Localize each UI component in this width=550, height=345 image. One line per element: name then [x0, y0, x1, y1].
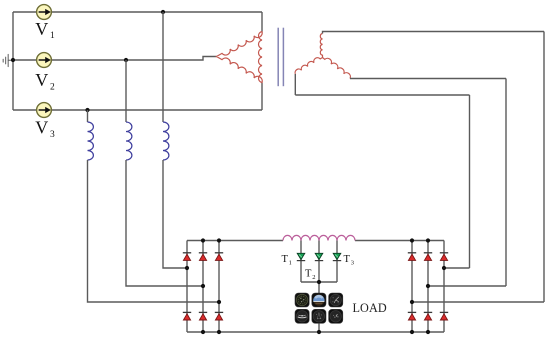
voltage source V1: [37, 5, 52, 20]
node: right bridge phase tap leg2: [426, 284, 430, 288]
diode D4 (left bridge bottom row): [183, 312, 191, 320]
diode D7 (right bridge top row): [408, 253, 416, 261]
diode D1 (left bridge top row): [183, 253, 191, 261]
node: junction V2 bus / inductor L2 tap: [124, 58, 128, 62]
wire: phase a to right rectifier leg 1: [412, 301, 544, 303]
diode D5 (left bridge bottom row): [199, 312, 207, 320]
svg-text:V: V: [35, 70, 48, 90]
wire: phase b vertical down: [505, 79, 507, 287]
node: junction top bus / inductor L3 tap: [161, 10, 165, 14]
wire: phase c vertical down: [469, 95, 471, 268]
svg-text:2: 2: [50, 83, 55, 93]
load instrument: heading indicator: [312, 309, 326, 323]
label T3: [344, 254, 354, 267]
wire: phase a right vertical down: [543, 32, 545, 303]
load instrument: vertical speed indicator: [329, 309, 343, 323]
svg-text:1: 1: [289, 260, 292, 267]
wire: phase c to right rectifier leg 3: [444, 267, 470, 269]
ground: [3, 55, 13, 67]
wire: L3 to left rectifier leg 1: [163, 160, 187, 268]
wire: tap T2 from coil down to load node: [318, 241, 320, 294]
node: junction V3 bus / inductor L1 tap: [85, 108, 89, 112]
transformer primary delta winding: [217, 32, 263, 83]
load instrument: airspeed indicator: [295, 293, 309, 307]
node: right bridge top bus leg1: [410, 238, 414, 242]
voltage source V2: [37, 53, 52, 68]
node: left bridge phase tap leg2: [201, 284, 205, 288]
wire: delta bottom vertex down to V3 bus: [261, 83, 263, 111]
wire: T1/T3 join bar: [301, 281, 337, 283]
wire: V3 phase bus along bottom: [13, 109, 262, 111]
wire: load bottom lead to negative bus: [318, 324, 320, 333]
node: left bridge bottom bus leg3: [217, 330, 221, 334]
wire: phase b to right rectifier leg 2: [428, 285, 506, 287]
wire: wye right branch to middle vertical (phase b): [350, 78, 506, 80]
diode D12 (right bridge bottom row): [440, 312, 448, 320]
wire: right bridge positive bus from interphase coil: [355, 240, 444, 242]
wire: left vertical rail joining V1 V2 V3: [12, 12, 14, 110]
diode D6 (left bridge bottom row): [215, 312, 223, 320]
label V2: [35, 70, 55, 93]
interphase transformer winding: [283, 235, 355, 240]
svg-text:2: 2: [312, 274, 315, 281]
wire: left bridge leg 3: [218, 241, 220, 333]
load instrument: attitude indicator: [312, 293, 326, 307]
node: left bridge top bus leg3: [217, 238, 221, 242]
load instrument: altimeter: [329, 293, 343, 307]
node: right bridge phase tap leg1: [410, 300, 414, 304]
node: right bridge bottom bus leg2: [426, 330, 430, 334]
diode D8 (right bridge top row): [424, 253, 432, 261]
svg-text:LOAD: LOAD: [353, 301, 387, 315]
node: right bridge top bus leg2: [426, 238, 430, 242]
svg-text:1: 1: [50, 31, 55, 41]
svg-text:3: 3: [50, 130, 55, 140]
thyristor T3: [333, 253, 341, 260]
diode D2 (left bridge top row): [199, 253, 207, 261]
svg-text:T: T: [305, 269, 312, 280]
wire: right bridge leg 3: [443, 241, 445, 333]
wire: right vertical drop from top bus to delta top vertex: [261, 12, 263, 32]
load instrument: turn coordinator: [295, 309, 309, 323]
transformer secondary wye winding: [295, 34, 350, 79]
wire: left bridge positive bus to interphase coil: [187, 240, 283, 242]
wire: tap T3 from coil down: [336, 241, 338, 283]
node: load / negative bus junction: [317, 330, 321, 334]
thyristor T2: [315, 253, 323, 260]
wire: tap T1 from coil down: [300, 241, 302, 283]
wire: left bridge leg 2: [202, 241, 204, 333]
label T1: [282, 254, 292, 267]
diode D11 (right bridge bottom row): [424, 312, 432, 320]
node: right bridge phase tap leg3: [442, 266, 446, 270]
wire: wye top branch to right vertical (phase a): [323, 32, 545, 34]
wire: L2 to left rectifier leg 2: [126, 160, 203, 286]
wire: drop from V2 bus to inductor L2: [125, 60, 127, 122]
wire: wye left branch down (phase c): [294, 74, 296, 95]
transformer core: [278, 28, 283, 86]
voltage source V3: [37, 103, 52, 118]
wire: L1 to left rectifier leg 3: [88, 160, 220, 302]
wire: negative bus (bottom) spanning both bridges: [187, 331, 444, 333]
wire: phase c horizontal: [295, 94, 469, 96]
svg-text:V: V: [35, 118, 48, 138]
diode D10 (right bridge bottom row): [408, 312, 416, 320]
svg-text:T: T: [282, 254, 289, 265]
thyristor T1: [297, 253, 305, 260]
node: junction left rail / V2 phase: [11, 58, 15, 62]
node: left bridge phase tap leg3: [217, 300, 221, 304]
node: left bridge bottom bus leg2: [201, 330, 205, 334]
inductor L1 (phase 3 line reactor): [88, 122, 94, 160]
node: thyristor common junction: [317, 280, 321, 284]
label V3: [35, 118, 55, 141]
label T2: [305, 269, 315, 282]
node: left bridge phase tap leg1: [185, 266, 189, 270]
diode D9 (right bridge top row): [440, 253, 448, 261]
svg-text:V: V: [35, 19, 48, 39]
wire: right bridge leg 1: [411, 241, 413, 333]
wire: drop from V3 bus to inductor L1: [87, 110, 89, 122]
wire: drop from top bus to inductor L3: [162, 12, 164, 122]
wire: right bridge leg 2: [427, 241, 429, 333]
wire: top phase bus from left rail to transformer (V1 phase): [13, 11, 262, 13]
wire: V2 phase to delta left vertex (with jog): [13, 57, 217, 61]
inductor L3 (phase 1 line reactor): [163, 122, 169, 160]
wire: left bridge leg 1: [186, 241, 188, 333]
diode D3 (left bridge top row): [215, 253, 223, 261]
label V1: [35, 19, 55, 41]
svg-text:T: T: [344, 254, 351, 265]
inductor L2 (phase 2 line reactor): [126, 122, 132, 160]
node: right bridge bottom bus leg1: [410, 330, 414, 334]
node: left bridge top bus leg2: [201, 238, 205, 242]
svg-text:3: 3: [351, 260, 354, 267]
